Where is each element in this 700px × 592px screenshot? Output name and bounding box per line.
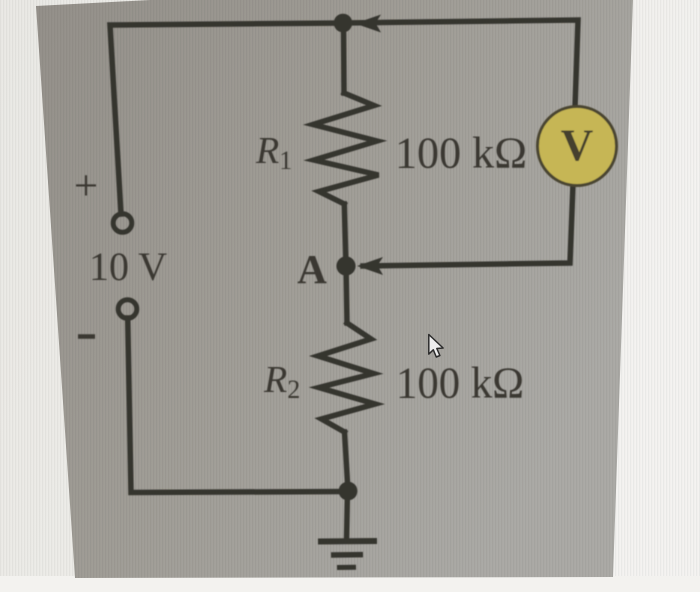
svg-text:10 V: 10 V [89,244,167,289]
svg-text:A: A [297,246,327,292]
ground symbol [318,541,377,568]
wire R1 bottom to node A [344,204,346,266]
wire node A down to R2 [346,266,347,323]
node (top junction) [334,14,353,33]
arrow into node A [357,257,383,275]
svg-text:V: V [561,121,594,171]
wire R2 bottom to bottom node [345,432,349,491]
svg-text:100 kΩ: 100 kΩ [395,129,527,178]
terminal - (open circle) [118,300,137,319]
wire bottom node left and up to minus terminal [128,318,348,493]
svg-text:+: + [74,163,98,210]
arrow into top node [355,15,381,33]
ground stub [347,491,348,541]
wire voltmeter bottom down to corner, left to node A [363,184,573,266]
wire top node to top-right corner, down to voltmeter [343,20,578,108]
wire top-left corner to top node [110,23,343,214]
resistor R2 zigzag [318,323,375,432]
label - [78,334,95,339]
node A junction dot [336,256,355,275]
svg-text:100 kΩ: 100 kΩ [396,359,524,408]
resistor R1 zigzag [313,93,379,204]
bottom light strip [0,576,700,592]
mouse cursor [429,335,443,358]
bottom node [339,482,358,501]
wire top node down to R1 [341,23,347,93]
terminal + (open circle) [113,214,132,233]
voltmeter V [538,107,617,186]
